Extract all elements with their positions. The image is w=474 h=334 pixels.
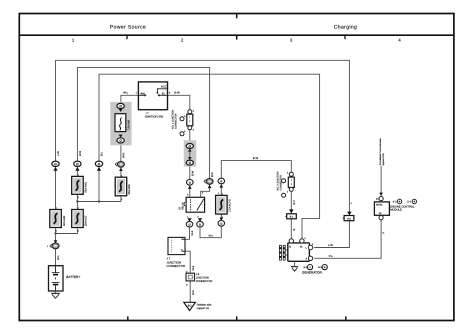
wire column1: fuse1 to battery bus: [55, 228, 57, 240]
svg-text:IH1: IH1: [347, 218, 351, 221]
male arrow into generator B connector: [289, 209, 294, 213]
svg-text:To Multiplex Communication: To Multiplex Communication: [379, 137, 382, 165]
wire fuse3 bottom to circle: [220, 214, 222, 221]
wire fuse3 col: bus160 down to circle: [221, 161, 291, 179]
svg-text:B: B: [293, 229, 296, 231]
ECM top terminal circle: [376, 197, 383, 201]
svg-text:W-B: W-B: [192, 265, 195, 270]
svg-text:RELAY: RELAY: [182, 202, 185, 210]
battery feed male arrow: [54, 240, 58, 243]
svg-text:CONNECTOR: CONNECTOR: [175, 113, 178, 129]
wire bus1 top: battery column 1 to L-wire: [56, 60, 350, 212]
svg-text:System ECU: System ECU: [382, 153, 385, 166]
AM1 fuse strip gray block: [110, 102, 131, 145]
junction dot col1 bottom bus: [54, 232, 56, 234]
generator: [279, 237, 314, 261]
pulley: [279, 245, 281, 260]
wire column2: fuse2B down to bottom bus: [56, 228, 78, 233]
wire column4 up to ignition AM: [121, 95, 138, 103]
svg-text:GENERATOR: GENERATOR: [302, 271, 323, 275]
fuse3 top connector circle: [218, 178, 225, 195]
relay bottom-right connector circle: [197, 218, 204, 227]
junction connector J1 vertical: [172, 109, 195, 135]
wire connector2 down to gray box B: [290, 192, 292, 215]
svg-text:B-W: B-W: [253, 157, 259, 160]
connector circle column3: [95, 161, 102, 171]
ground point triangle BO: [184, 302, 212, 310]
svg-text:E-1: E-1: [407, 201, 411, 204]
fuse F3 7.5A ALT-S: [216, 192, 232, 219]
ECM ground circles E-2 E-1: [393, 199, 417, 203]
svg-text:7.5A ALT-S: 7.5A ALT-S: [229, 199, 232, 212]
svg-text:Power Source: Power Source: [110, 25, 146, 31]
svg-text:CONNECTOR: CONNECTOR: [279, 175, 282, 191]
svg-text:IGNITION SW: IGNITION SW: [145, 115, 164, 119]
male arrow into ECM top: [379, 193, 383, 196]
inline connector pair on gray strip: [184, 140, 196, 166]
svg-text:Charging: Charging: [334, 25, 357, 31]
generator ground: [291, 261, 298, 271]
wire J7 to J8: [185, 251, 190, 273]
wire column3: circle down to bus y201: [98, 167, 100, 202]
svg-text:support LH: support LH: [197, 307, 209, 310]
svg-text:AM: AM: [140, 92, 145, 96]
svg-text:7.5A AM1: 7.5A AM1: [128, 119, 131, 131]
junction connector J8: [186, 270, 213, 286]
svg-text:E-2: E-2: [393, 201, 397, 204]
wire from bus2 ellipse into relay topright: [201, 184, 210, 198]
svg-text:BATTERY: BATTERY: [66, 275, 80, 279]
wire column4: fuse4 down to bus y201: [120, 196, 122, 202]
wire circle to relay topleft: [189, 185, 191, 198]
svg-text:L-W: L-W: [57, 151, 60, 156]
battery: [49, 266, 81, 291]
battery ground: [51, 291, 60, 298]
svg-text:P: P: [383, 232, 386, 234]
engine control module: [374, 202, 415, 215]
svg-text:ACC: ACC: [161, 85, 167, 89]
generator ground point circles: [304, 265, 328, 270]
svg-text:BO: BO: [188, 305, 192, 308]
multiplex note: [379, 137, 385, 165]
junction connector J7: [166, 236, 185, 268]
svg-text:IG: IG: [300, 245, 303, 248]
svg-text:W-L: W-L: [123, 92, 128, 95]
svg-text:W-B: W-B: [191, 230, 194, 235]
wire gray box B down to generator: [290, 218, 292, 238]
gray connector box IH1: [343, 216, 354, 221]
svg-text:50A AM1: 50A AM1: [85, 182, 88, 193]
gray connector on relay right feed: [204, 179, 213, 189]
wire ECM top to multiplex: [380, 166, 382, 196]
gray connector box B: [285, 214, 296, 219]
wire column1 lower: circle to fuse1 to bottom bus: [55, 167, 57, 210]
connector circle above relay left: [187, 180, 194, 189]
svg-text:B-W: B-W: [191, 170, 194, 176]
fuse3 bottom connector circle: [218, 218, 225, 227]
svg-text:IG: IG: [162, 92, 165, 96]
svg-text:B-R: B-R: [211, 172, 214, 177]
wire bottom bus to battery: [55, 248, 57, 265]
svg-text:CONNECTOR: CONNECTOR: [166, 264, 185, 268]
ECM bottom terminal circle: [379, 216, 383, 220]
fuse F2A 50A AM1: [72, 173, 88, 199]
svg-text:W-B: W-B: [192, 290, 195, 295]
svg-text:W-L: W-L: [209, 234, 214, 237]
gray inline connector column4: [115, 161, 124, 171]
wire bus2 top: column 2 to relay column: [77, 68, 209, 179]
wire column4: gray ellipse down to fuse4: [120, 167, 122, 177]
battery inline connector gray: [47, 243, 59, 249]
fuse F2B 100A ALT: [72, 207, 88, 233]
male arrow into IH1 box: [347, 212, 352, 216]
wire fuse3 top circle to fuse3: [220, 183, 222, 195]
fuse F1 30A AM2: [50, 207, 66, 233]
wire J8 to ground triangle: [189, 281, 191, 302]
svg-text:MODULE: MODULE: [390, 208, 402, 211]
svg-text:W-L: W-L: [57, 255, 60, 260]
svg-text:P-L: P-L: [329, 255, 334, 258]
svg-text:CONNECTOR: CONNECTOR: [196, 280, 213, 283]
svg-text:B-L: B-L: [101, 151, 104, 156]
connector circle column1: [52, 161, 59, 171]
wire inline pair to circle: [189, 165, 191, 180]
relay bottom-left connector circle: [186, 218, 193, 227]
junction dot col3 bus201: [98, 200, 100, 202]
wire bus y201 from col2 to col4: [77, 201, 121, 203]
junction dot col2 bus201: [76, 200, 78, 202]
connector circle column2: [74, 161, 81, 171]
wire IG to connector1: [168, 95, 190, 110]
svg-text:W-R: W-R: [122, 153, 125, 158]
wire generator L to L-column: [314, 221, 349, 248]
junction connector no2 vertical: [276, 171, 294, 197]
wire relay bottomright to y237.7 bus: [200, 226, 221, 238]
wire bus3 top: column 3 to generator IG: [99, 74, 320, 238]
svg-text:W-B: W-B: [79, 151, 82, 156]
svg-text:60A ABS: 60A ABS: [128, 184, 131, 195]
wire column2: circle to fuse2A: [76, 167, 78, 176]
svg-text:Radiator side: Radiator side: [197, 304, 212, 307]
wire column4: strip to ellipse: [120, 143, 122, 162]
wire column2: fuse2A to fuse2B with bus y201: [76, 195, 78, 209]
wire relay bottomleft to J7: [185, 227, 190, 240]
svg-text:MPX1: MPX1: [376, 203, 383, 206]
fuse F4 60A ABS: [115, 174, 131, 201]
wire generator P to ECM bottom: [314, 220, 381, 259]
svg-text:B-W: B-W: [174, 92, 180, 95]
svg-text:L-W: L-W: [328, 244, 333, 247]
svg-text:B-Y: B-Y: [293, 200, 296, 205]
svg-text:30A AM2: 30A AM2: [63, 215, 66, 226]
ignition switch I7: [136, 82, 171, 119]
ST relay: [179, 192, 205, 219]
svg-text:100A ALT: 100A ALT: [85, 215, 88, 226]
wire connector1 to gray inline pair: [189, 130, 191, 144]
